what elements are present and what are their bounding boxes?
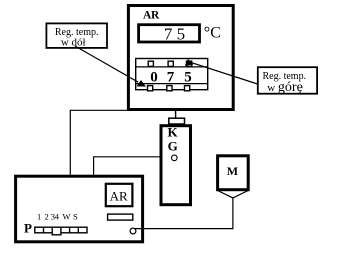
connector tab on contactor xyxy=(169,118,185,124)
block AR temperature regulator xyxy=(128,6,233,110)
wire contactor K to controller P xyxy=(94,157,161,175)
block M motor xyxy=(218,156,249,190)
svg-text:AR: AR xyxy=(143,10,160,22)
svg-text:075: 075 xyxy=(150,69,192,85)
block K G contactor xyxy=(161,126,191,205)
svg-text:K: K xyxy=(167,124,178,139)
motor funnel xyxy=(218,191,249,198)
display window xyxy=(139,25,200,42)
DIP switch P xyxy=(35,227,87,235)
block P controller xyxy=(16,176,143,242)
setpoint panel xyxy=(136,59,208,90)
label box Reg. temp. w gore xyxy=(258,67,317,95)
svg-text:w górę: w górę xyxy=(267,80,303,95)
label box Reg. temp. w dol xyxy=(46,23,107,48)
svg-text:7 5: 7 5 xyxy=(164,25,185,44)
wire regulator bottom-left to controller P xyxy=(70,110,128,174)
arrow to down button xyxy=(75,46,146,87)
output terminal circle xyxy=(130,228,136,234)
svg-text:P: P xyxy=(24,221,32,236)
up-button row (squares) xyxy=(148,61,192,66)
blank indicator rectangle xyxy=(108,214,133,220)
svg-text:w dół: w dół xyxy=(61,36,86,48)
indicator lamp circle xyxy=(172,155,178,161)
wire motor M to controller P output xyxy=(135,198,233,229)
svg-text:G: G xyxy=(168,138,178,153)
svg-text:°C: °C xyxy=(204,25,221,42)
arrow to up button xyxy=(185,59,258,84)
module AR box in controller xyxy=(106,184,133,206)
down-button row (squares) xyxy=(148,86,190,91)
svg-text:M: M xyxy=(227,164,238,178)
svg-text:AR: AR xyxy=(110,189,128,204)
wire regulator to contactor tab xyxy=(175,111,177,118)
